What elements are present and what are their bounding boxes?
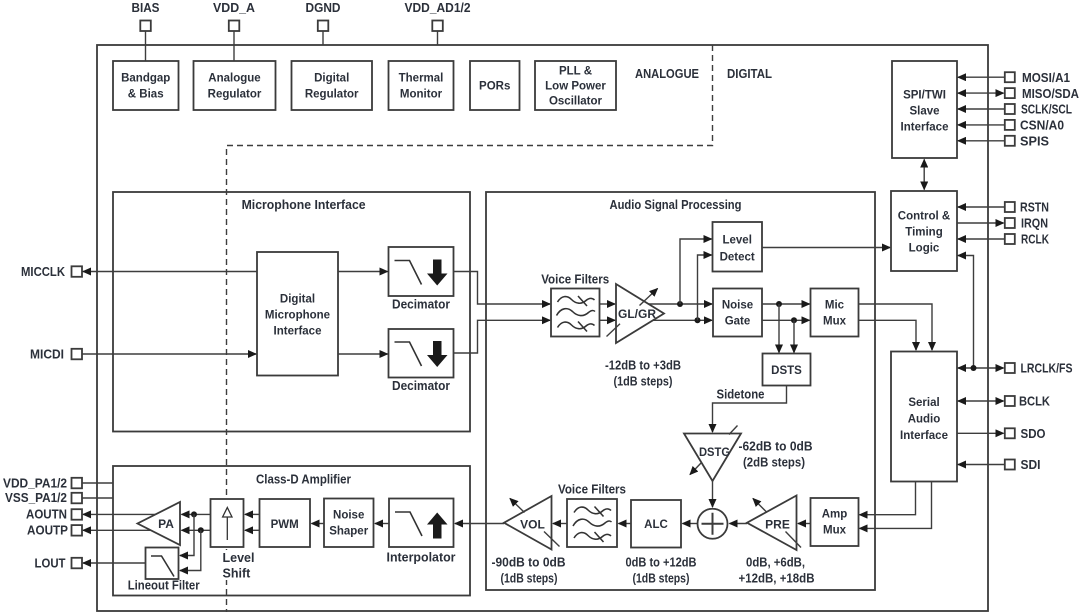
- block Level Detect: [713, 222, 763, 272]
- svg-text:PLL &: PLL &: [559, 66, 592, 78]
- svg-text:PORs: PORs: [479, 81, 510, 93]
- wire tap to Lineout Filter (lower): [180, 530, 201, 570]
- node dot on upper line: [677, 301, 683, 307]
- wire Amp Mux to PRE: [798, 523, 811, 525]
- block Noise Gate: [713, 289, 762, 337]
- wire DGND to chip edge: [322, 31, 324, 45]
- wire summer to ALC: [683, 523, 698, 525]
- pin MICCLK: [21, 264, 82, 279]
- pin VDD_AD1/2: [405, 0, 471, 31]
- node dot sidetone tap lower: [791, 317, 797, 323]
- outer chip boundary box: [97, 45, 988, 611]
- wire riser to Level Detect (from upper): [680, 239, 712, 304]
- block Mic Mux: [811, 289, 859, 337]
- block Voice Filters 1: [541, 273, 609, 337]
- svg-text:MICCLK: MICCLK: [21, 264, 66, 279]
- svg-text:Regulator: Regulator: [305, 89, 359, 101]
- pin SDI: [1005, 457, 1041, 472]
- wire Decimator1 to Voice Filters: [454, 272, 551, 305]
- pin AOUTP: [27, 523, 82, 538]
- amplifier VOL: [504, 496, 560, 550]
- svg-text:Bandgap: Bandgap: [121, 73, 170, 85]
- amplifier PA: [138, 502, 181, 545]
- block PWM: [260, 499, 311, 547]
- svg-text:GL/GR: GL/GR: [618, 307, 656, 321]
- svg-text:CSN/A0: CSN/A0: [1020, 118, 1064, 133]
- svg-text:BIAS: BIAS: [132, 0, 160, 15]
- svg-text:VDD_A: VDD_A: [213, 0, 256, 15]
- wire GL/GR out upper to Noise Gate: [645, 303, 712, 305]
- svg-text:Logic: Logic: [909, 243, 940, 255]
- wire VSS_PA1/2: [82, 497, 113, 499]
- svg-text:Shaper: Shaper: [329, 526, 369, 538]
- svg-text:Analogue: Analogue: [208, 73, 260, 85]
- wire VDD_AD1/2 to chip edge: [437, 31, 439, 45]
- node dot upper: [191, 511, 197, 517]
- svg-text:Slave: Slave: [909, 106, 939, 118]
- svg-text:& Bias: & Bias: [128, 89, 164, 101]
- block Decimator 1: [389, 247, 454, 312]
- wire RCLK: [958, 238, 1005, 240]
- amplifier PRE: [747, 496, 801, 551]
- wire Noise Shaper to PWM: [312, 523, 325, 525]
- svg-text:Noise: Noise: [722, 300, 753, 312]
- pin RSTN: [1005, 200, 1049, 215]
- pin MICDI: [30, 347, 82, 362]
- wire Voice Filters 2 to VOL: [553, 523, 567, 525]
- wire SDO: [957, 432, 1004, 434]
- svg-text:VDD_PA1/2: VDD_PA1/2: [3, 476, 67, 491]
- svg-text:Microphone: Microphone: [265, 310, 330, 322]
- svg-text:VSS_PA1/2: VSS_PA1/2: [5, 490, 67, 505]
- svg-text:Digital: Digital: [314, 73, 349, 85]
- wire Level Detect to Control & Timing Logic: [762, 247, 890, 249]
- wire CSN/A0: [958, 124, 1005, 126]
- svg-text:Mic: Mic: [825, 300, 845, 312]
- svg-text:PWM: PWM: [271, 519, 299, 531]
- block Control & Timing Logic: [891, 191, 957, 271]
- node dot LRCLK junction: [971, 365, 977, 371]
- wire VDD_PA1/2: [82, 482, 113, 484]
- svg-text:-12dB to +3dB: -12dB to +3dB: [605, 359, 681, 373]
- svg-text:Interface: Interface: [901, 122, 949, 134]
- svg-text:Interface: Interface: [900, 430, 948, 442]
- svg-text:SPIS: SPIS: [1020, 134, 1049, 149]
- svg-text:Gate: Gate: [725, 316, 751, 328]
- svg-text:Detect: Detect: [720, 252, 755, 264]
- wire LRCLK feedback to Control: [958, 256, 974, 369]
- wire RSTN: [958, 206, 1005, 208]
- wire tap to Lineout Filter (upper): [180, 514, 194, 555]
- svg-text:Noise: Noise: [333, 510, 364, 522]
- svg-text:SDI: SDI: [1021, 457, 1041, 472]
- dashed analogue/digital divider (top): [227, 45, 713, 612]
- pin MISO/SDA: [1005, 86, 1080, 101]
- wire PWM to Level Shift (lower): [245, 529, 260, 531]
- svg-text:Audio Signal Processing: Audio Signal Processing: [610, 197, 742, 212]
- svg-text:Timing: Timing: [905, 227, 942, 239]
- pin CSN/A0: [1005, 118, 1064, 133]
- svg-text:-90dB to 0dB: -90dB to 0dB: [492, 556, 566, 570]
- wire MISO/SDA: [958, 92, 1004, 94]
- svg-text:SPI/TWI: SPI/TWI: [903, 90, 946, 102]
- wire Lineout Filter to LOUT pin: [83, 562, 146, 564]
- block Decimator 2: [389, 329, 454, 393]
- svg-text:BCLK: BCLK: [1019, 394, 1051, 409]
- svg-text:Serial: Serial: [908, 397, 939, 409]
- block DSTS: [763, 354, 811, 386]
- wire GL/GR out lower to Noise Gate: [645, 319, 712, 321]
- block Noise Shaper: [324, 499, 374, 548]
- wire SCLK/SCL: [958, 108, 1005, 110]
- pin AOUTN: [26, 507, 82, 522]
- svg-text:Class-D Amplifier: Class-D Amplifier: [256, 472, 351, 487]
- wire VDD_A to Analogue Regulator: [233, 31, 235, 61]
- node dot lower: [198, 527, 204, 533]
- wire PRE to summer: [730, 523, 748, 525]
- node dot sidetone tap upper: [776, 301, 782, 307]
- wire LRCLK/FS: [958, 367, 1004, 369]
- pin VSS_PA1/2: [5, 490, 82, 505]
- svg-text:Low Power: Low Power: [545, 81, 606, 93]
- wire Noise Gate to Mic Mux (upper): [762, 303, 810, 305]
- wire SPIS: [958, 140, 1005, 142]
- pin IRQN: [1005, 216, 1048, 231]
- amplifier GL/GR: [607, 284, 665, 343]
- svg-text:(1dB steps): (1dB steps): [633, 572, 690, 586]
- wire VOL to Interpolator: [455, 523, 504, 525]
- svg-text:LRCLK/FS: LRCLK/FS: [1021, 361, 1073, 376]
- svg-text:MICDI: MICDI: [30, 347, 64, 362]
- pin SCLK/SCL: [1005, 102, 1072, 117]
- svg-text:Amp: Amp: [822, 509, 848, 521]
- wire Mic Mux to SAI (upper): [859, 304, 933, 350]
- svg-text:Level: Level: [722, 235, 751, 247]
- wire Noise Gate to Mic Mux (lower): [762, 319, 810, 321]
- block Audio Signal Processing container: [486, 192, 875, 590]
- wire PA to AOUTP pin: [83, 529, 160, 531]
- svg-text:RSTN: RSTN: [1020, 200, 1049, 215]
- svg-text:DIGITAL: DIGITAL: [727, 67, 772, 81]
- pin RCLK: [1005, 232, 1050, 247]
- svg-text:MOSI/A1: MOSI/A1: [1022, 70, 1070, 85]
- svg-text:+12dB, +18dB: +12dB, +18dB: [739, 572, 815, 586]
- svg-text:0dB, +6dB,: 0dB, +6dB,: [746, 556, 805, 570]
- svg-text:(1dB steps): (1dB steps): [614, 375, 673, 389]
- wire MOSI/A1: [958, 76, 1005, 78]
- wire PA to AOUTN pin: [83, 513, 160, 515]
- pin DGND: [306, 0, 341, 31]
- block Thermal Monitor: [389, 61, 454, 110]
- block Digital Regulator: [292, 61, 373, 110]
- svg-text:Level: Level: [223, 551, 255, 565]
- svg-text:Digital: Digital: [280, 294, 315, 306]
- amplifier DSTG: [684, 426, 741, 482]
- pin MOSI/A1: [1005, 70, 1070, 85]
- wire IRQN: [957, 222, 1004, 224]
- svg-text:Lineout Filter: Lineout Filter: [128, 579, 200, 593]
- block Serial Audio Interface: [891, 352, 957, 482]
- svg-text:ALC: ALC: [644, 519, 668, 531]
- wire PWM to Level Shift (upper): [245, 513, 260, 515]
- wire SDI: [958, 464, 1005, 466]
- svg-text:VOL: VOL: [520, 518, 545, 532]
- pin BCLK: [1005, 394, 1051, 409]
- wire ALC to Voice Filters 2: [619, 523, 632, 525]
- svg-text:SDO: SDO: [1021, 426, 1046, 441]
- svg-text:PRE: PRE: [765, 518, 790, 532]
- svg-text:Sidetone: Sidetone: [717, 388, 765, 402]
- block SPI/TWI Slave Interface: [892, 61, 957, 158]
- svg-text:Voice Filters: Voice Filters: [558, 483, 626, 497]
- svg-text:DSTG: DSTG: [699, 447, 730, 459]
- svg-text:ANALOGUE: ANALOGUE: [635, 67, 699, 81]
- block ALC: [631, 500, 681, 548]
- svg-text:Control &: Control &: [898, 211, 950, 223]
- summer node: [698, 509, 728, 539]
- wire MICCLK from DMI: [83, 271, 257, 273]
- svg-text:Interface: Interface: [274, 326, 322, 338]
- wire SAI to Amp Mux (upper): [860, 482, 916, 515]
- svg-text:AOUTN: AOUTN: [26, 507, 67, 522]
- pin VDD_PA1/2: [3, 476, 82, 491]
- pin SPIS: [1005, 134, 1050, 149]
- svg-text:PA: PA: [158, 517, 174, 531]
- block Interpolator: [387, 499, 456, 565]
- block Amp Mux: [811, 498, 859, 546]
- pin BIAS: [132, 0, 160, 31]
- wire DMI to Decimator2: [338, 353, 388, 355]
- wire Decimator2 to Voice Filters: [454, 320, 551, 353]
- svg-text:0dB to +12dB: 0dB to +12dB: [626, 556, 697, 570]
- wire BIAS to Bandgap: [145, 31, 147, 61]
- svg-text:Interpolator: Interpolator: [387, 551, 456, 565]
- svg-text:Mux: Mux: [823, 316, 847, 328]
- svg-text:MISO/SDA: MISO/SDA: [1022, 86, 1080, 101]
- wire SPI to Control bidirectional: [923, 160, 925, 190]
- svg-text:Regulator: Regulator: [208, 89, 262, 101]
- wire tap to DSTS (right): [793, 320, 795, 352]
- svg-text:IRQN: IRQN: [1021, 216, 1048, 231]
- wire Mic Mux to SAI (lower): [859, 320, 917, 350]
- svg-text:Audio: Audio: [908, 414, 941, 426]
- svg-text:Thermal: Thermal: [399, 73, 444, 85]
- wire Voice Filters to GL/GR (upper): [600, 303, 616, 305]
- svg-text:Shift: Shift: [223, 567, 252, 581]
- label Level Shift: [222, 550, 260, 581]
- wire DSTG to summer: [712, 481, 714, 507]
- svg-text:LOUT: LOUT: [35, 556, 66, 571]
- svg-text:Microphone Interface: Microphone Interface: [242, 197, 366, 212]
- block Digital Microphone Interface: [257, 252, 338, 376]
- svg-text:DSTS: DSTS: [771, 365, 802, 377]
- pin SDO: [1005, 426, 1046, 441]
- wire Level Shift to PA (upper): [182, 513, 211, 515]
- wire MICDI to DMI: [82, 353, 256, 355]
- block Level Shift: [211, 499, 244, 547]
- block PORs: [470, 61, 520, 110]
- wire SAI to Amp Mux (lower): [860, 482, 932, 529]
- pin LOUT: [35, 556, 83, 571]
- block Class-D Amplifier container: [113, 466, 470, 596]
- svg-text:Decimator: Decimator: [392, 379, 450, 393]
- wire DSTS sidetone to DSTG: [713, 386, 787, 433]
- svg-text:Decimator: Decimator: [392, 298, 450, 312]
- svg-text:(2dB steps): (2dB steps): [743, 456, 805, 470]
- wire Interpolator to Noise Shaper: [375, 523, 389, 525]
- wire tap to DSTS (left): [778, 304, 780, 353]
- node dot on lower line: [695, 317, 701, 323]
- block PLL & Low Power Oscillator: [535, 61, 616, 110]
- block Lineout Filter: [128, 548, 200, 593]
- wire Level Shift to PA (lower): [182, 529, 211, 531]
- pin LRCLK/FS: [1005, 361, 1073, 376]
- wire BCLK: [958, 400, 1004, 402]
- svg-text:AOUTP: AOUTP: [27, 523, 68, 538]
- svg-text:RCLK: RCLK: [1021, 232, 1049, 247]
- wire riser to Level Detect (from lower): [698, 255, 712, 320]
- svg-text:Voice Filters: Voice Filters: [541, 273, 609, 287]
- svg-text:Mux: Mux: [823, 525, 847, 537]
- wire Voice Filters to GL/GR (lower): [600, 319, 616, 321]
- svg-text:VDD_AD1/2: VDD_AD1/2: [405, 0, 471, 15]
- svg-text:Oscillator: Oscillator: [549, 96, 603, 108]
- block Voice Filters 2: [558, 483, 626, 548]
- svg-text:-62dB to 0dB: -62dB to 0dB: [739, 440, 813, 454]
- svg-text:(1dB steps): (1dB steps): [501, 572, 558, 586]
- svg-text:Monitor: Monitor: [400, 89, 443, 101]
- pin VDD_A: [213, 0, 256, 31]
- block Analogue Regulator: [194, 61, 276, 110]
- block Microphone Interface container: [113, 192, 470, 432]
- wire DMI to Decimator1: [338, 271, 388, 273]
- svg-text:SCLK/SCL: SCLK/SCL: [1021, 102, 1072, 117]
- block Bandgap & Bias: [113, 61, 179, 110]
- svg-text:DGND: DGND: [306, 0, 341, 15]
